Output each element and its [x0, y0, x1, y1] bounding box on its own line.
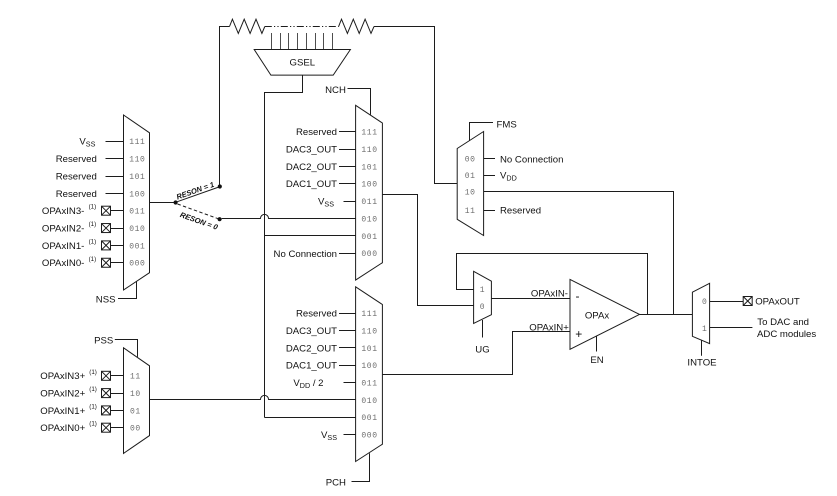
- svg-text:01: 01: [130, 407, 141, 416]
- svg-text:OPAxIN-: OPAxIN-: [531, 289, 568, 300]
- svg-text:101: 101: [361, 345, 377, 354]
- svg-text:PSS: PSS: [94, 335, 113, 346]
- svg-text:-: -: [576, 289, 580, 303]
- svg-text:110: 110: [361, 146, 377, 155]
- svg-text:FMS: FMS: [497, 119, 517, 130]
- svg-text:111: 111: [129, 138, 145, 147]
- svg-text:100: 100: [129, 190, 145, 199]
- svg-text:001: 001: [129, 242, 145, 251]
- svg-text:00: 00: [130, 425, 141, 434]
- svg-text:+: +: [575, 327, 582, 341]
- svg-text:No Connection: No Connection: [274, 249, 337, 260]
- svg-text:NCH: NCH: [325, 85, 346, 96]
- svg-text:010: 010: [129, 225, 145, 234]
- svg-text:Reserved: Reserved: [296, 309, 337, 320]
- svg-text:OPAxIN2-: OPAxIN2-: [42, 223, 84, 234]
- svg-text:0: 0: [702, 298, 707, 307]
- svg-text:(1): (1): [89, 421, 97, 428]
- svg-text:OPAxIN2+: OPAxIN2+: [40, 389, 85, 400]
- svg-text:OPAxIN1+: OPAxIN1+: [40, 406, 85, 417]
- svg-text:011: 011: [361, 379, 377, 388]
- svg-text:001: 001: [361, 233, 377, 242]
- svg-text:111: 111: [361, 310, 377, 319]
- svg-text:111: 111: [361, 129, 377, 138]
- svg-text:(1): (1): [89, 386, 97, 393]
- svg-text:Reserved: Reserved: [500, 206, 541, 217]
- svg-text:DAC2_OUT: DAC2_OUT: [286, 343, 337, 354]
- svg-text:(1): (1): [89, 256, 97, 263]
- svg-text:(1): (1): [89, 238, 97, 245]
- svg-text:(1): (1): [89, 369, 97, 376]
- svg-text:011: 011: [129, 208, 145, 217]
- svg-text:11: 11: [465, 207, 476, 216]
- svg-text:(1): (1): [89, 204, 97, 211]
- svg-text:OPAxIN0-: OPAxIN0-: [42, 258, 84, 269]
- svg-text:100: 100: [361, 362, 377, 371]
- svg-text:010: 010: [361, 397, 377, 406]
- svg-text:110: 110: [361, 327, 377, 336]
- svg-text:0: 0: [480, 303, 485, 312]
- svg-text:(1): (1): [89, 221, 97, 228]
- svg-text:EN: EN: [590, 355, 603, 366]
- svg-text:To DAC and: To DAC and: [757, 317, 809, 328]
- svg-text:DAC3_OUT: DAC3_OUT: [286, 326, 337, 337]
- svg-text:PCH: PCH: [326, 478, 346, 489]
- svg-text:UG: UG: [475, 344, 489, 355]
- svg-text:010: 010: [361, 215, 377, 224]
- svg-text:000: 000: [361, 250, 377, 259]
- svg-text:OPAxIN1-: OPAxIN1-: [42, 241, 84, 252]
- svg-text:1: 1: [480, 286, 485, 295]
- svg-text:(1): (1): [89, 403, 97, 410]
- svg-text:DAC1_OUT: DAC1_OUT: [286, 361, 337, 372]
- svg-text:OPAxIN3-: OPAxIN3-: [42, 206, 84, 217]
- svg-text:OPAxIN0+: OPAxIN0+: [40, 423, 85, 434]
- svg-text:Reserved: Reserved: [296, 127, 337, 138]
- svg-text:00: 00: [465, 156, 476, 165]
- svg-text:DAC2_OUT: DAC2_OUT: [286, 162, 337, 173]
- svg-text:NSS: NSS: [96, 294, 116, 305]
- svg-text:INTOE: INTOE: [687, 358, 716, 369]
- svg-text:11: 11: [130, 373, 141, 382]
- svg-text:10: 10: [465, 189, 476, 198]
- svg-text:Reserved: Reserved: [56, 154, 97, 165]
- svg-text:101: 101: [129, 173, 145, 182]
- svg-text:GSEL: GSEL: [289, 58, 315, 69]
- svg-text:1: 1: [702, 325, 707, 334]
- svg-text:OPAx: OPAx: [585, 310, 610, 321]
- svg-text:001: 001: [361, 414, 377, 423]
- svg-text:011: 011: [361, 198, 377, 207]
- svg-text:100: 100: [361, 181, 377, 190]
- svg-text:Reserved: Reserved: [56, 171, 97, 182]
- svg-text:DAC1_OUT: DAC1_OUT: [286, 179, 337, 190]
- svg-text:ADC modules: ADC modules: [757, 329, 816, 340]
- svg-text:101: 101: [361, 163, 377, 172]
- svg-text:OPAxIN+: OPAxIN+: [529, 322, 569, 333]
- svg-text:01: 01: [465, 172, 476, 181]
- svg-text:DAC3_OUT: DAC3_OUT: [286, 144, 337, 155]
- svg-text:OPAxIN3+: OPAxIN3+: [40, 371, 85, 382]
- svg-text:000: 000: [129, 260, 145, 269]
- svg-text:No Connection: No Connection: [500, 155, 563, 166]
- svg-text:OPAxOUT: OPAxOUT: [755, 296, 800, 307]
- svg-text:000: 000: [361, 431, 377, 440]
- svg-text:110: 110: [129, 156, 145, 165]
- svg-text:Reserved: Reserved: [56, 189, 97, 200]
- svg-text:10: 10: [130, 390, 141, 399]
